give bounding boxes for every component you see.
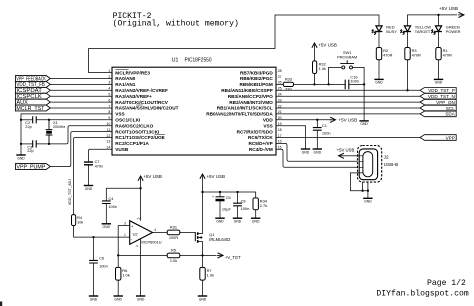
wire C4 to ground [105,204,107,224]
svg-text:U2: U2 [133,232,138,237]
svg-text:C6: C6 [99,256,104,261]
resistor R3 470R [405,48,421,60]
svg-text:+5V USB: +5V USB [318,42,337,47]
wire Q1 drain to +V_TGT node [202,241,204,255]
wire R32 bottom [314,74,316,85]
wire SW1 node to ground [363,84,365,121]
svg-text:22p: 22p [27,148,34,153]
node C5 tap [219,191,221,193]
net flag VDD_TST_N [420,93,456,99]
svg-text:100n: 100n [99,263,108,268]
wire J2 shell pins down [363,182,368,191]
wire ICSPDAT to pin 4 [50,89,112,91]
svg-text:C5: C5 [226,195,231,200]
wire R1 to ground [438,60,440,80]
svg-text:100n: 100n [108,204,117,209]
wire POWER LED to R1 [438,32,440,48]
svg-text:GND: GND [103,225,111,229]
ground R34 [251,218,260,223]
wire pin25 to VDD_TST_P flag [276,89,420,91]
ground opamp V- [136,296,145,301]
wire +5V rail [203,192,256,198]
wire pin12 VDD_TST_ADJ to R4 [74,138,112,215]
ground J2 [363,198,372,203]
svg-text:RB4/AN11/KBI0/CSSPP: RB4/AN11/KBI0/CSSPP [221,88,273,93]
wire C1 to ground [316,130,318,149]
resistor R5 1.0k [167,248,180,263]
wire MCLR_TST to pin 7 [50,107,112,109]
footer text Page 1/2 [427,279,466,288]
wire C1 stub [316,120,318,128]
wire C8 to ground [237,206,239,218]
power arrow +5V USB VDD [330,117,358,122]
svg-text:Page 1/2: Page 1/2 [427,279,466,288]
ground C6 [89,296,98,301]
wire R3 to VDD_TST_P net [407,60,409,91]
capacitor C6 100n [89,256,108,269]
capacitor C7 470n [84,159,103,169]
node crystal-OSC2 junction [48,143,50,145]
svg-text:RB5/KBI1/PGM: RB5/KBI1/PGM [239,82,272,87]
wire R6 to ground [117,280,119,296]
resistor R6 1.0k [116,267,130,280]
wire pin24 to VDD_TST_N flag [276,95,420,97]
power label +5V USB VBUS [337,147,355,152]
wire J2 shield hook [350,173,368,191]
node feedback divider [117,254,119,256]
svg-text:RC2/CCP1/P1A: RC2/CCP1/P1A [115,141,149,146]
net flag SDA [420,111,456,117]
power arrow +5V USB VBUS [339,153,345,158]
capacitor C5 10uF electrolytic [212,195,231,211]
svg-text:1.0k: 1.0k [122,272,129,277]
svg-text:RC4/D-/VM: RC4/D-/VM [249,147,273,152]
resistor R32 1.0k [313,61,327,74]
svg-text:GND: GND [17,156,25,160]
svg-text:+V_TGT: +V_TGT [225,255,241,260]
svg-text:TARGET: TARGET [415,29,431,34]
wire +5V to opamp V+ [140,182,142,221]
wire AUX to pin 6 [50,101,112,103]
svg-text:RA1/AN1: RA1/AN1 [115,82,135,87]
svg-text:VDD: VDD [263,118,274,123]
resistor R1 470R [436,48,452,60]
wire pin11 to VPP_PUMP flag [50,132,112,167]
power arrow +5V USB top right [458,12,464,17]
wire pin15 D- to J2 [276,149,359,167]
svg-text:J2: J2 [384,155,389,161]
LED D3 yellow TARGET [400,24,431,35]
power +5V USB Q1 source [200,174,225,180]
net label VDD_TST_ADJ [68,179,72,206]
resistor R34 2.7k [253,198,268,210]
svg-text:R31: R31 [170,225,177,230]
svg-text:RC6/TX/CK: RC6/TX/CK [248,135,273,140]
wire R7 stub [202,255,204,267]
wire R5 to +V_TGT [180,254,217,256]
svg-text:100n: 100n [241,206,250,211]
wire +5V rail LEDs [408,15,458,26]
svg-text:10k: 10k [77,220,83,225]
svg-text:POWER: POWER [446,29,461,34]
switch SW1 PROGRAM [329,50,365,84]
svg-text:330: 330 [285,87,292,92]
svg-text:GND: GND [199,297,207,301]
wire pin17 to VPP flag [276,137,420,139]
svg-text:VSS: VSS [263,123,272,128]
svg-text:R33: R33 [285,77,292,82]
svg-text:MCLR/VPP/RE3: MCLR/VPP/RE3 [115,70,150,75]
wire TARGET LED to R3 [407,32,409,48]
net flag MCLR_TST [15,105,50,112]
node C1 tap [316,119,318,121]
svg-text:470R: 470R [383,53,392,58]
net flag AUX [15,99,50,106]
svg-text:RC5/D+/VP: RC5/D+/VP [248,141,272,146]
svg-text:3: 3 [124,221,126,225]
svg-text:PIC18F2550: PIC18F2550 [185,58,212,64]
IC U1 PIC18F2550 [106,58,281,156]
wire OSC1 pin9 line [36,119,112,121]
wire C16 right to node [349,83,364,85]
wire pin14 VUSB to C7 [89,149,113,162]
wire R32 top to +5V [314,49,316,61]
wire VPP_FEEDBACK to pin 2 [50,78,112,80]
svg-text:VUSB: VUSB [115,147,129,152]
ground C5 [215,218,224,223]
svg-text:22p: 22p [25,124,32,129]
wire C3 to left rail [21,143,33,145]
wire opamp output to R31 [153,231,168,233]
node C2 rail junction [20,119,22,121]
svg-text:GND: GND [252,220,260,224]
svg-text:VSS: VSS [115,112,124,117]
wire supply rail to C4 [106,188,140,201]
corner mark bottom-left [0,302,2,306]
resistor R4 10k [72,215,84,226]
net flag VPP [420,135,456,141]
svg-text:1: 1 [124,233,126,237]
wire pin16 D+ to J2 [276,143,359,161]
wire pin22 to SCL flag [276,107,420,109]
svg-text:+5V USB: +5V USB [439,6,458,11]
svg-text:GND: GND [364,200,372,204]
svg-text:SDA: SDA [445,112,455,117]
wire R34 to ground [255,210,257,218]
node C8 tap [236,191,238,193]
svg-text:GND: GND [435,81,443,85]
capacitor C3 22p [27,140,36,153]
svg-text:RB1/AN10/INT1/SCK/SCL: RB1/AN10/INT1/SCK/SCL [217,106,273,111]
svg-text:RC7/RX/DT/SDO: RC7/RX/DT/SDO [237,129,274,134]
wire feedback node to R5 [118,254,167,256]
svg-text:10µF: 10µF [222,206,232,211]
net flag VDD_TST_P [420,88,456,94]
svg-text:100n: 100n [350,79,359,84]
svg-text:MCP6001U: MCP6001U [141,239,161,244]
svg-text:C8: C8 [241,198,246,203]
svg-text:MCLR_TST: MCLR_TST [16,106,44,112]
net flag VPP_PUMP [15,164,50,171]
svg-text:+5V USB: +5V USB [339,118,358,123]
LED D2 red BUSY [372,24,397,35]
net flag VPP_FEEDBACK [15,76,50,83]
svg-text:RA0/AN0: RA0/AN0 [115,76,135,81]
wire opamp noninverting input feedback [118,226,130,256]
svg-text:VPP: VPP [446,135,455,140]
svg-text:470n: 470n [95,164,104,169]
resistor R31 100R [167,225,180,240]
wire opamp V- to ground [140,239,142,296]
svg-text:VPP_PUMP: VPP_PUMP [16,164,46,170]
svg-text:RB7/KBI3/PGD: RB7/KBI3/PGD [240,70,273,75]
node R32 pulldown junction [313,83,315,85]
svg-text:RB0/AN12/INT0/FLT0/SDI/SDA: RB0/AN12/INT0/FLT0/SDI/SDA [206,112,273,117]
power +5V USB R32 [312,42,337,49]
node opamp supply rail [139,187,141,189]
wire C8 stub [237,192,239,203]
node green LED tap [437,14,439,16]
svg-text:RB2/AN8/INT2/VMO: RB2/AN8/INT2/VMO [229,100,273,105]
wire R2 to ground [378,60,380,80]
svg-text:2.7k: 2.7k [260,203,267,208]
node +5V rail Q1 tap [201,191,203,193]
wire R4 to opamp inverting input [74,226,130,238]
wire pin21 to SDA flag [276,113,420,115]
svg-text:RA4/T0CKI/C1OUT/RCV: RA4/T0CKI/C1OUT/RCV [115,100,168,105]
svg-text:470R: 470R [412,53,421,58]
wire pin23 to VPP_ON flag [276,101,420,103]
net arrow +V_TGT [217,253,241,260]
svg-text:RA3/AN3/VREF+: RA3/AN3/VREF+ [115,94,152,99]
svg-text:RA5/AN4/SS/HLVDIN/C2OUT: RA5/AN4/SS/HLVDIN/C2OUT [115,106,178,111]
svg-text:GND: GND [234,220,242,224]
op-amp U2 MCP6001U [124,217,162,248]
svg-text:RA2/AN2/VREF-/CVREF: RA2/AN2/VREF-/CVREF [115,88,168,93]
resistor R33 330 [283,77,293,92]
wire C6 to ground [93,263,95,296]
net flag SCL [420,105,456,111]
node J2 shell right [367,190,369,192]
net flag VPP_ON [420,99,456,105]
node C3 rail junction [20,143,22,145]
transistor Q1 IRLML6402 [195,232,231,243]
wire OSC2 pin10 line [36,126,112,144]
power +5V USB opamp supply [138,174,162,182]
capacitor C2 22p [25,116,36,129]
wire pin19 VSS to ground [276,126,306,149]
wire R6 stub [117,255,119,267]
svg-text:C1: C1 [322,123,327,128]
wire VDD_TST_FB to pin 3 [50,83,112,85]
ground C1 [313,149,322,154]
node R3 VDD_TST_P junction [406,89,408,91]
svg-text:GND: GND [375,81,383,85]
wire green LED stub [438,15,440,26]
wire R7 to ground [202,280,204,296]
wire BUSY LED to R2 [378,32,380,48]
crystal X1 20MHz [46,120,66,144]
svg-text:28: 28 [278,69,282,73]
svg-text:C4: C4 [108,196,114,201]
svg-text:OSC1/CLKI: OSC1/CLKI [115,118,140,123]
wire +5V to Q1 source [202,180,204,234]
wire VSS pin8 to ground rail [21,114,112,155]
svg-text:1.0k: 1.0k [207,272,214,277]
svg-text:RB3/AN9/CCP2/VPO: RB3/AN9/CCP2/VPO [228,94,273,99]
wire C5 stub [219,192,221,197]
svg-text:USB-B: USB-B [384,162,399,168]
svg-text:VPP_ON: VPP_ON [436,100,455,105]
svg-text:20MHz: 20MHz [53,124,65,129]
svg-text:VDD_TST_N: VDD_TST_N [428,94,455,99]
wire C2 to left rail [21,119,33,121]
svg-text:13: 13 [106,140,110,144]
connector J2 USB-B [358,146,399,183]
footer text DIYfan.blogspot.com [376,290,468,299]
net flag ICSPCLK [15,93,50,100]
svg-text:1.0k: 1.0k [170,258,177,263]
resistor R2 470R [376,48,392,60]
net flag VDD_TST_FB [15,82,50,89]
svg-text:GND: GND [85,187,93,191]
wire R33 to C16 [294,83,346,85]
svg-text:470R: 470R [443,53,452,58]
svg-text:(Original, without memory): (Original, without memory) [113,20,239,29]
svg-text:+5V USB: +5V USB [337,147,355,152]
wire C6 stub [93,237,95,260]
ground R1 [434,79,443,84]
svg-text:RC1/T1OSI/CCP2/UOE: RC1/T1OSI/CCP2/UOE [115,135,165,140]
node C16 SW1 right junction [363,83,365,85]
ground R7 [198,296,207,301]
wire C5 to ground [219,201,221,218]
wire VBUS arrow to J2 [345,155,360,157]
svg-text:18: 18 [278,128,282,132]
svg-text:R5: R5 [171,248,176,253]
wire R31 to Q1 gate [180,231,196,233]
svg-text:GND: GND [302,150,310,154]
svg-text:GND: GND [114,297,122,301]
svg-text:VDD_TST_ADJ: VDD_TST_ADJ [68,179,72,206]
ground C8 [233,218,242,223]
svg-text:U1: U1 [172,58,179,64]
node +V_TGT [201,254,203,256]
wire ICSPCLK to pin 5 [50,95,112,97]
svg-text:+5V USB: +5V USB [206,174,225,179]
wire C7 to ground [88,165,90,186]
power label +5V USB top [439,6,458,11]
node J2 shell left [361,190,363,192]
ground R6 [114,296,123,301]
net flag ICSPDAT [15,87,50,94]
svg-text:100R: 100R [169,235,178,240]
svg-text:GND: GND [360,122,368,126]
LED D1 green POWER [431,24,460,35]
svg-text:DIYfan.blogspot.com: DIYfan.blogspot.com [376,290,468,299]
node OSC1-crystal junction [48,119,50,121]
svg-text:RA6/OSC2/CLKO: RA6/OSC2/CLKO [115,123,153,128]
ground C7 [84,186,93,191]
ground C4 [102,224,111,229]
svg-text:SCL: SCL [446,106,455,111]
svg-text:+: + [212,195,214,199]
svg-text:RB6/KBI2/PGC: RB6/KBI2/PGC [240,76,273,81]
svg-text:VDD_TST_P: VDD_TST_P [428,88,455,93]
resistor R7 1.0k [200,267,214,280]
ground SW1/C16 [359,121,368,126]
svg-text:27: 27 [278,75,282,79]
capacitor C16 100n [345,75,359,90]
svg-text:4: 4 [154,228,156,232]
node SW1 left junction [327,83,329,85]
wire pin26 to R33 [276,83,283,85]
ground crystal [16,155,25,160]
svg-text:100n: 100n [322,131,331,136]
svg-text:GND: GND [137,297,145,301]
svg-text:+5V USB: +5V USB [143,174,162,179]
ground R2 [374,79,383,84]
svg-text:1.0k: 1.0k [319,66,326,71]
svg-text:BUSY: BUSY [386,29,397,34]
ground VSS [301,149,310,154]
svg-text:RC0/T1OSO/T13CKI: RC0/T1OSO/T13CKI [115,129,159,134]
title text PICKIT-2 [113,12,239,28]
capacitor C4 100n [102,196,117,209]
svg-text:PROGRAM: PROGRAM [337,55,357,60]
svg-text:GND: GND [90,297,98,301]
capacitor C1 100n [313,123,331,136]
svg-text:GND: GND [314,150,322,154]
svg-text:GND: GND [216,220,224,224]
capacitor C8 100n [233,198,249,211]
svg-text:IRLML6402: IRLML6402 [209,237,231,242]
wire pin20 VDD [276,119,332,121]
node C6 tap [92,236,94,238]
wire J2 shell to ground [367,191,369,199]
wire pin1 MCLR to BUSY LED [89,15,379,73]
